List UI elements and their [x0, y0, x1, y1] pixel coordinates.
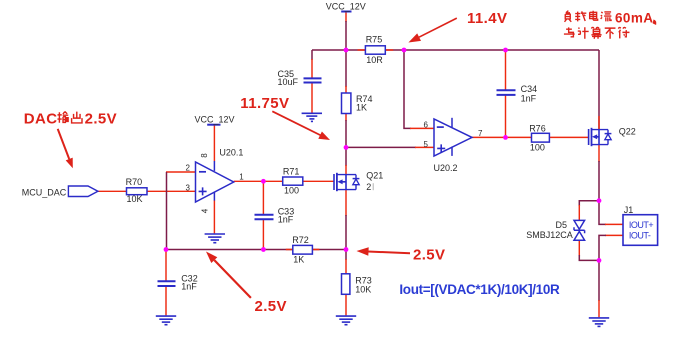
wire R75 pin stubs (red)	[358, 49, 394, 51]
wire top bus from C35 corner to Q22 drain corner	[312, 49, 599, 51]
wire U20.1 pin2 stub (red)	[166, 171, 196, 173]
wire Q22 source down to IOUT+ node	[598, 145, 600, 162]
svg-text:U20.2: U20.2	[434, 163, 458, 173]
wire U20.1 pin4 to ground (red)	[213, 200, 215, 233]
wire U20.1 pin8 from VCC (red)	[213, 126, 215, 162]
wire C35 bottom lead to ground (red)	[311, 83, 313, 112]
svg-text:SMBJ12CA: SMBJ12CA	[526, 230, 573, 240]
wire C35 branch	[311, 50, 313, 60]
svg-text:8: 8	[200, 153, 209, 158]
wire C34 bottom lead	[505, 95, 507, 137]
ground under IOUT- / D5	[589, 318, 609, 327]
wire C33 top lead	[262, 181, 264, 214]
node junction dot IOUT+ / D5 top	[597, 198, 602, 203]
svg-text:4: 4	[200, 208, 209, 213]
annotation red: DAC output 2.5V	[24, 110, 117, 127]
node junction dot C34 top	[503, 48, 508, 53]
capacitor C34 1nF	[497, 84, 538, 103]
wire D5 branch top	[579, 201, 599, 206]
resistor R70 10K	[126, 177, 147, 204]
ground under R73	[336, 316, 356, 325]
resistor R73 10K	[342, 274, 372, 295]
svg-text:2.5V: 2.5V	[85, 110, 117, 127]
svg-text:2.5V: 2.5V	[413, 246, 445, 263]
op-amp U20.2	[424, 118, 483, 173]
svg-text:10K: 10K	[127, 194, 143, 204]
svg-text:1K: 1K	[293, 254, 304, 264]
node junction dot U20.1 output / C33	[261, 179, 266, 184]
power VCC_12V top	[326, 2, 366, 12]
wire Q22 drain stub (red)	[598, 116, 600, 130]
svg-text:DAC: DAC	[24, 110, 58, 127]
svg-text:Q22: Q22	[619, 126, 636, 136]
op-amp U20.1	[186, 148, 245, 214]
wire J1 pin2 stub (red)	[605, 234, 623, 236]
resistor R72 1K	[292, 235, 312, 264]
wire U20.1 output to R71 to Q21 gate (red)	[234, 180, 334, 182]
svg-text:2.5V: 2.5V	[255, 298, 287, 315]
resistor R74 1K	[342, 93, 373, 114]
wire IOUT- node down to ground	[598, 260, 600, 301]
wire MCU_DAC port to R70 (red)	[98, 190, 127, 192]
wire feedback from 11.4V node down to U20.2 pin6	[404, 50, 411, 128]
annotation red: load current 60mA line1	[565, 11, 657, 26]
wire U20.2 pin5 stub (red)	[415, 146, 434, 148]
node junction dot VCC/R75/R74/C35	[344, 48, 349, 53]
svg-text:1nF: 1nF	[278, 215, 294, 225]
svg-text:2: 2	[186, 164, 191, 173]
annotation arrow from 11.4V to R75 output node	[408, 18, 456, 42]
svg-text:1nF: 1nF	[181, 282, 197, 292]
wire U20.2 pin6 stub (red)	[410, 127, 434, 129]
node junction dot Q21 source / R73 (2.5V)	[344, 247, 349, 252]
wire bottom bus (2.5V net)	[166, 249, 346, 251]
annotation arrow to feedback bus	[206, 252, 251, 298]
wire R73 top lead	[345, 250, 347, 261]
svg-text:1nF: 1nF	[521, 94, 537, 104]
resistor R75 10R	[365, 35, 385, 65]
svg-text:Q21: Q21	[366, 171, 383, 181]
annotation red: mismatch with calculation line2	[564, 27, 630, 39]
ground under U20.1 pin4	[205, 234, 225, 243]
capacitor C35 10uF	[278, 69, 322, 87]
svg-text:R70: R70	[126, 177, 143, 187]
svg-text:10K: 10K	[355, 285, 371, 295]
ground under C35	[302, 113, 322, 121]
connector J1 IOUT	[623, 205, 658, 245]
svg-text:IOUT+: IOUT+	[629, 220, 653, 230]
svg-text:2: 2	[366, 182, 371, 192]
wire C34 top lead	[505, 50, 507, 90]
node junction dot feedback / C32	[164, 247, 169, 252]
svg-text:VCC_12V: VCC_12V	[194, 115, 234, 125]
wire R74 bottom to Q21 drain	[345, 114, 347, 122]
wire D5 top lead (red)	[578, 205, 580, 221]
capacitor C33 1nF	[255, 206, 295, 224]
wire Q21 source stub (red)	[345, 190, 347, 216]
svg-text:MCU_DAC: MCU_DAC	[22, 187, 67, 197]
wire R72 pin stubs (red)	[286, 249, 320, 251]
svg-text:10uF: 10uF	[278, 77, 299, 87]
transistor Q21 (NMOS)	[334, 171, 383, 193]
wire Q22 drain vertical	[598, 50, 600, 130]
svg-text:60mA: 60mA	[615, 11, 653, 26]
wire VCC junction down to R74	[345, 50, 347, 87]
transistor Q22 (NMOS)	[589, 126, 636, 146]
wire feedback vertical pin2 to bottom bus	[166, 172, 168, 250]
wire C32 bottom lead to ground	[165, 287, 167, 316]
wire C35 top lead (red)	[311, 59, 313, 78]
wire C33 bottom lead	[262, 220, 264, 250]
node junction dot Q21 drain / pin5	[344, 145, 349, 150]
annotation arrow from 11.75V to Q21 drain node	[272, 111, 330, 140]
node junction dot C33 bottom	[261, 247, 266, 252]
svg-text:VCC_12V: VCC_12V	[326, 2, 366, 12]
svg-text:U20.1: U20.1	[219, 148, 243, 158]
wire VCC_12V drop to top bus	[345, 13, 347, 23]
svg-text:1: 1	[239, 173, 244, 182]
wire C32 top lead	[165, 250, 167, 281]
wire U20.2 output to R76 to Q22 gate (red)	[472, 136, 589, 138]
svg-text:D5: D5	[556, 220, 568, 230]
wire R73 top stub (red)	[345, 259, 347, 274]
svg-text:10R: 10R	[366, 55, 383, 65]
svg-text:1K: 1K	[356, 103, 367, 113]
resistor R71 100	[283, 167, 303, 196]
svg-text:J1: J1	[624, 205, 634, 215]
wire J1 pin1 stub (red)	[605, 223, 623, 225]
wire D5 branch bottom	[579, 255, 599, 260]
port MCU_DAC	[22, 186, 98, 197]
wire R73 bottom lead to ground (red)	[345, 294, 347, 315]
svg-text:6: 6	[424, 120, 429, 129]
svg-text:Iout=[(VDAC*1K)/10K]/10R: Iout=[(VDAC*1K)/10K]/10R	[399, 282, 560, 297]
wire R70 to U20.1 pin3 (red)	[147, 190, 196, 192]
power VCC_12V at U20.1 pin8	[194, 115, 234, 125]
ground under C32	[156, 316, 176, 325]
annotation arrow to 2.5V node right	[357, 247, 411, 255]
svg-text:5: 5	[424, 140, 429, 149]
resistor R76 100	[529, 123, 549, 152]
svg-text:R71: R71	[283, 167, 300, 177]
svg-text:7: 7	[478, 129, 483, 138]
wire J1 pin2 to IOUT- node	[599, 235, 606, 260]
wire D5 bottom lead (red)	[578, 240, 580, 256]
node junction dot 11.4V net	[402, 48, 407, 53]
svg-text:11.75V: 11.75V	[240, 95, 289, 112]
svg-text:100: 100	[530, 143, 545, 153]
svg-text:R72: R72	[292, 235, 309, 245]
svg-text:3: 3	[186, 183, 191, 192]
svg-text:100: 100	[284, 186, 299, 196]
svg-text:R76: R76	[529, 123, 546, 133]
diode D5 SMBJ12CA (TVS)	[526, 220, 584, 240]
svg-text:11.4V: 11.4V	[467, 10, 507, 27]
svg-text:R75: R75	[366, 35, 383, 45]
wire Q21 source to bottom bus	[345, 215, 347, 250]
wire Q21 drain node to U20.2 pin5	[346, 146, 416, 148]
capacitor C32 1nF	[158, 273, 198, 291]
annotation arrow from DAC label to R70 area	[58, 129, 73, 168]
node junction dot IOUT- / D5 bottom	[597, 258, 602, 263]
svg-text:IOUT-: IOUT-	[629, 231, 651, 241]
node junction dot U20.2 output	[503, 135, 508, 140]
